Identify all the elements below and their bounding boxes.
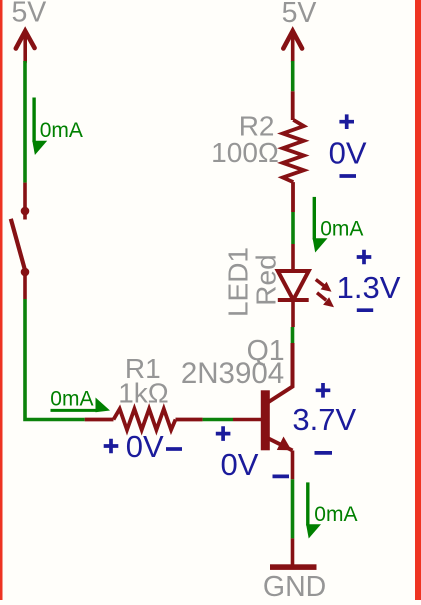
transistor Q1 (2N3904 NPN) — [233, 343, 293, 479]
svg-text:100Ω: 100Ω — [211, 137, 279, 168]
voltage annotation + 0V − (across R2) — [329, 114, 367, 176]
svg-text:0V: 0V — [221, 447, 259, 482]
LED1 emission arrow 1 — [316, 280, 332, 292]
LED LED1 (red) — [278, 244, 309, 327]
voltage annotation + 1.3V − (across LED1) — [337, 250, 401, 311]
junction dot (switch top terminal) — [21, 207, 30, 216]
svg-text:0V: 0V — [126, 429, 164, 464]
switch SW1 bottom lead — [23, 272, 27, 299]
svg-text:0mA: 0mA — [320, 218, 363, 241]
current annotation 0mA (into R1) — [50, 388, 110, 413]
svg-text:0mA: 0mA — [314, 503, 357, 526]
ground GND — [270, 538, 317, 569]
svg-text:5V: 5V — [282, 0, 317, 29]
wire (LED1 to Q1 collector, green) — [291, 327, 295, 343]
voltage source V1 arrow (left 5V) — [16, 31, 35, 62]
svg-text:Red: Red — [251, 254, 282, 305]
wire (Q1 emitter to GND, green) — [291, 479, 295, 538]
voltage annotation + 3.7V − (VCE) — [292, 383, 356, 453]
svg-text:1kΩ: 1kΩ — [118, 378, 169, 409]
resistor R2 (with leads) — [283, 91, 304, 212]
current annotation 0mA (left branch) — [32, 98, 83, 156]
current annotation 0mA (R2 to LED1) — [313, 197, 364, 253]
svg-text:LED1: LED1 — [223, 247, 254, 317]
current annotation 0mA (emitter to GND) — [306, 482, 357, 538]
wire (switch to R1, green L-shape) — [25, 299, 85, 420]
resistor R1 (with leads) — [85, 409, 203, 430]
switch SW1 fixed contact stub — [23, 211, 27, 220]
svg-text:3.7V: 3.7V — [292, 402, 356, 437]
svg-text:0mA: 0mA — [40, 119, 83, 142]
wire (V1 to switch, green) — [23, 61, 27, 183]
wire (R2 to LED1, green) — [291, 212, 295, 244]
junction dot (switch bottom terminal) — [21, 268, 30, 277]
svg-text:2N3904: 2N3904 — [181, 357, 284, 390]
voltage source V2 arrow (right 5V) — [283, 31, 302, 62]
voltage annotation + 0V − (across R1) — [104, 429, 182, 464]
wire (R1 to Q1 base, green) — [203, 418, 233, 422]
svg-text:0mA: 0mA — [50, 388, 93, 411]
voltage annotation + 0V − (VBE) — [216, 426, 289, 482]
switch SW1 blade (open) — [11, 219, 26, 272]
wire (V2 to R2, green) — [291, 61, 295, 91]
svg-text:1.3V: 1.3V — [337, 270, 401, 305]
LED1 emission arrow 2 — [317, 293, 334, 307]
svg-text:0V: 0V — [329, 136, 367, 171]
svg-text:5V: 5V — [11, 0, 46, 28]
svg-text:GND: GND — [263, 571, 326, 600]
switch SW1 top lead (wire) — [23, 183, 27, 211]
